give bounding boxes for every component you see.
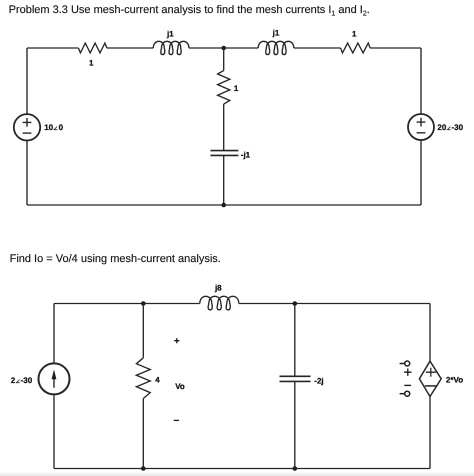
node A junction dot (221, 46, 226, 51)
capacitor C1 value -j1 plates (210, 151, 238, 156)
label Vo plus mark (174, 338, 179, 343)
svg-text:1: 1 (234, 84, 239, 93)
wire C1 to bottom node (223, 155, 225, 205)
node top of R4 junction dot (141, 301, 146, 306)
svg-text:-30: -30 (452, 123, 464, 132)
wire R1 to L1 (107, 47, 153, 49)
I1 arrow shaft (53, 378, 55, 388)
voltage source V2 20@-30 circle (408, 114, 434, 140)
wire top-left segment (27, 47, 78, 49)
svg-text:1: 1 (89, 58, 94, 67)
wire left branch upper (26, 48, 28, 114)
wire left branch upper circuit 2 (53, 304, 55, 364)
sense terminal upper stub (400, 363, 405, 365)
svg-text:2*Vo: 2*Vo (446, 376, 463, 385)
E1 minus sign (425, 385, 437, 387)
resistor R1 value 1 (78, 43, 107, 53)
wire left branch lower circuit 2 (53, 394, 55, 468)
dependent source E1 diamond (419, 361, 441, 396)
svg-text:-j1: -j1 (241, 150, 251, 159)
svg-text:20: 20 (437, 123, 446, 132)
wire middle branch top (223, 48, 225, 71)
wire R4 branch upper (142, 304, 144, 358)
inductor L1 value j1 (153, 41, 189, 54)
resistor R2 value 1 (341, 43, 371, 53)
wire C2 branch lower (294, 381, 296, 468)
inductor L2 value j1 (258, 41, 294, 54)
V2 minus sign (417, 132, 426, 134)
svg-text:2: 2 (11, 376, 16, 385)
wire right branch upper (420, 48, 422, 114)
current source I1 2@-30 circle (39, 363, 70, 394)
sense terminal lower circle (405, 391, 410, 396)
V1 plus sign (23, 118, 32, 127)
wire R3 to C1 (223, 104, 225, 150)
svg-text:j1: j1 (272, 29, 280, 38)
wire dependent source branch lower (429, 397, 431, 469)
svg-text:Vo: Vo (175, 382, 185, 391)
svg-text:-2j: -2j (314, 376, 323, 385)
sense terminal lower stub (400, 393, 405, 395)
wire top rail right circuit 2 (239, 303, 430, 305)
wire right branch lower (420, 140, 422, 205)
node bottom of R4 junction dot (141, 466, 146, 471)
svg-text:j1: j1 (166, 29, 174, 38)
inductor L3 value j8 (200, 296, 239, 310)
label Vo minus mark (174, 419, 179, 421)
svg-text:j8: j8 (214, 283, 222, 292)
svg-text:4: 4 (155, 376, 160, 385)
svg-text:Find Io = Vo/4 using mesh-curr: Find Io = Vo/4 using mesh-current analys… (10, 253, 221, 265)
wire L2 to R2 (294, 47, 341, 49)
capacitor C2 value -2j plates (280, 376, 311, 381)
wire L1 to L2 through node A (189, 47, 258, 49)
svg-text:1: 1 (352, 30, 357, 39)
wire R2 to top-right corner (370, 47, 421, 49)
wire bottom rail circuit 1 (27, 204, 421, 206)
wire C2 branch upper (294, 304, 296, 377)
E1 plus sign (426, 368, 436, 377)
resistor R3 value 1 vertical (218, 71, 230, 105)
svg-text:0: 0 (59, 123, 64, 132)
svg-text:-30: -30 (21, 376, 33, 385)
resistor R4 value 4 (136, 358, 150, 399)
voltage source V1 10@0 circle (14, 114, 40, 140)
wire left branch lower (26, 141, 28, 206)
svg-text:10: 10 (44, 123, 53, 132)
wire R4 branch lower (142, 399, 144, 469)
V1 minus sign (23, 132, 32, 134)
bottom middle junction dot (221, 203, 226, 208)
node top of C2 junction dot (293, 301, 298, 306)
wire top rail left circuit 2 (54, 303, 200, 305)
sense plus sign (404, 369, 412, 376)
sense minus sign (404, 384, 411, 386)
wire dependent source branch upper (429, 304, 431, 362)
wire bottom rail circuit 2 (54, 468, 430, 470)
V2 plus sign (417, 118, 426, 127)
node bottom of C2 junction dot (293, 466, 298, 471)
bottom window edge shading (0, 472, 474, 474)
sense terminal upper circle (405, 361, 410, 366)
svg-text:Problem 3.3 Use mesh-current a: Problem 3.3 Use mesh-current analysis to… (9, 4, 370, 18)
I1 arrow head (52, 370, 57, 380)
